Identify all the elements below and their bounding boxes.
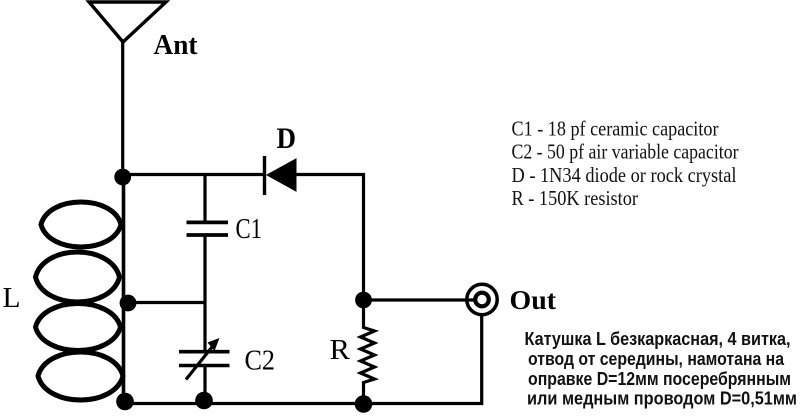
- wire top rail left: [123, 173, 264, 176]
- svg-text:R - 150K resistor: R - 150K resistor: [512, 186, 639, 210]
- wire coil tap rail: [126, 301, 205, 304]
- capacitor C1: [187, 220, 229, 224]
- svg-text:L: L: [3, 283, 21, 314]
- coil L loop 1: [41, 202, 121, 247]
- svg-text:C1: C1: [236, 213, 263, 245]
- svg-text:D - 1N34 diode or rock crystal: D - 1N34 diode or rock crystal: [512, 163, 737, 187]
- diode D cathode bar: [263, 156, 266, 195]
- connector Out inner circle: [475, 293, 489, 307]
- svg-text:R: R: [330, 334, 351, 366]
- svg-text:C1 - 18 pf ceramic capacitor: C1 - 18 pf ceramic capacitor: [512, 116, 719, 140]
- node coil tap: [120, 295, 137, 312]
- wire top rail right and down to node: [296, 175, 364, 301]
- svg-text:отвод от середины, намотана на: отвод от середины, намотана на: [528, 349, 785, 369]
- wire C1 branch top: [203, 175, 206, 223]
- wire C2 top: [203, 303, 206, 352]
- svg-text:или медным проводом D=0,51мм: или медным проводом D=0,51мм: [527, 388, 797, 408]
- coil L loop 3: [36, 304, 121, 351]
- coil L loop 2: [36, 252, 120, 302]
- svg-text:D: D: [277, 122, 297, 155]
- antenna Ant: [89, 2, 166, 42]
- capacitor C2: [179, 350, 230, 354]
- wire node to Out connector: [364, 298, 477, 301]
- svg-text:C2 - 50 pf air variable capaci: C2 - 50 pf air variable capacitor: [512, 140, 739, 164]
- resistor R: [361, 300, 375, 404]
- svg-text:оправке D=12мм посеребрянным: оправке D=12мм посеребрянным: [528, 369, 791, 389]
- node antenna/coil junction: [114, 169, 131, 186]
- wire Out connector down to bottom rail: [480, 315, 483, 404]
- wire C1 bottom: [203, 235, 206, 303]
- svg-text:Out: Out: [510, 285, 557, 315]
- wire C2 bottom: [203, 366, 206, 404]
- coil L right side wire: [122, 176, 126, 402]
- connector Out outer circle: [467, 284, 497, 314]
- diode D triangle: [267, 159, 296, 191]
- node coil bottom: [116, 393, 134, 411]
- svg-text:Ant: Ant: [154, 30, 199, 61]
- svg-text:Катушка L безкаркасная, 4 витк: Катушка L безкаркасная, 4 витка,: [525, 329, 791, 349]
- wire antenna lead: [121, 42, 124, 176]
- wire bottom rail: [123, 402, 483, 405]
- C2 variable arrow: [186, 345, 214, 380]
- svg-text:C2: C2: [245, 345, 276, 377]
- coil L loop 4: [38, 352, 123, 400]
- node C2 bottom rail: [195, 392, 213, 410]
- node R bottom: [355, 395, 373, 413]
- node R top: [355, 292, 372, 309]
